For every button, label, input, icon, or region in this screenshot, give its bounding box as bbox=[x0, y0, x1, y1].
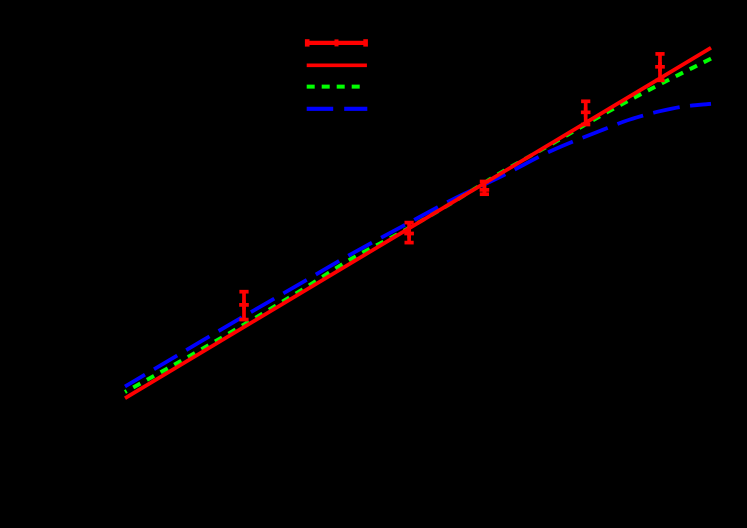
legend sample: blue dashed line bbox=[307, 107, 368, 111]
error bar data point 1 bbox=[239, 292, 249, 320]
legend sample: green dotted line bbox=[307, 85, 361, 89]
red solid fit line bbox=[125, 48, 711, 398]
legend sample: red errorbar entry bbox=[306, 39, 367, 46]
error bar data point 4 bbox=[581, 101, 591, 124]
green dotted model curve bbox=[125, 59, 711, 392]
error bar data point 3 bbox=[480, 182, 490, 195]
error bar data point 5 bbox=[655, 54, 665, 80]
legend sample: red solid line bbox=[307, 64, 367, 68]
blue long-dashed model curve bbox=[125, 104, 711, 387]
error bar data point 2 bbox=[404, 223, 414, 243]
